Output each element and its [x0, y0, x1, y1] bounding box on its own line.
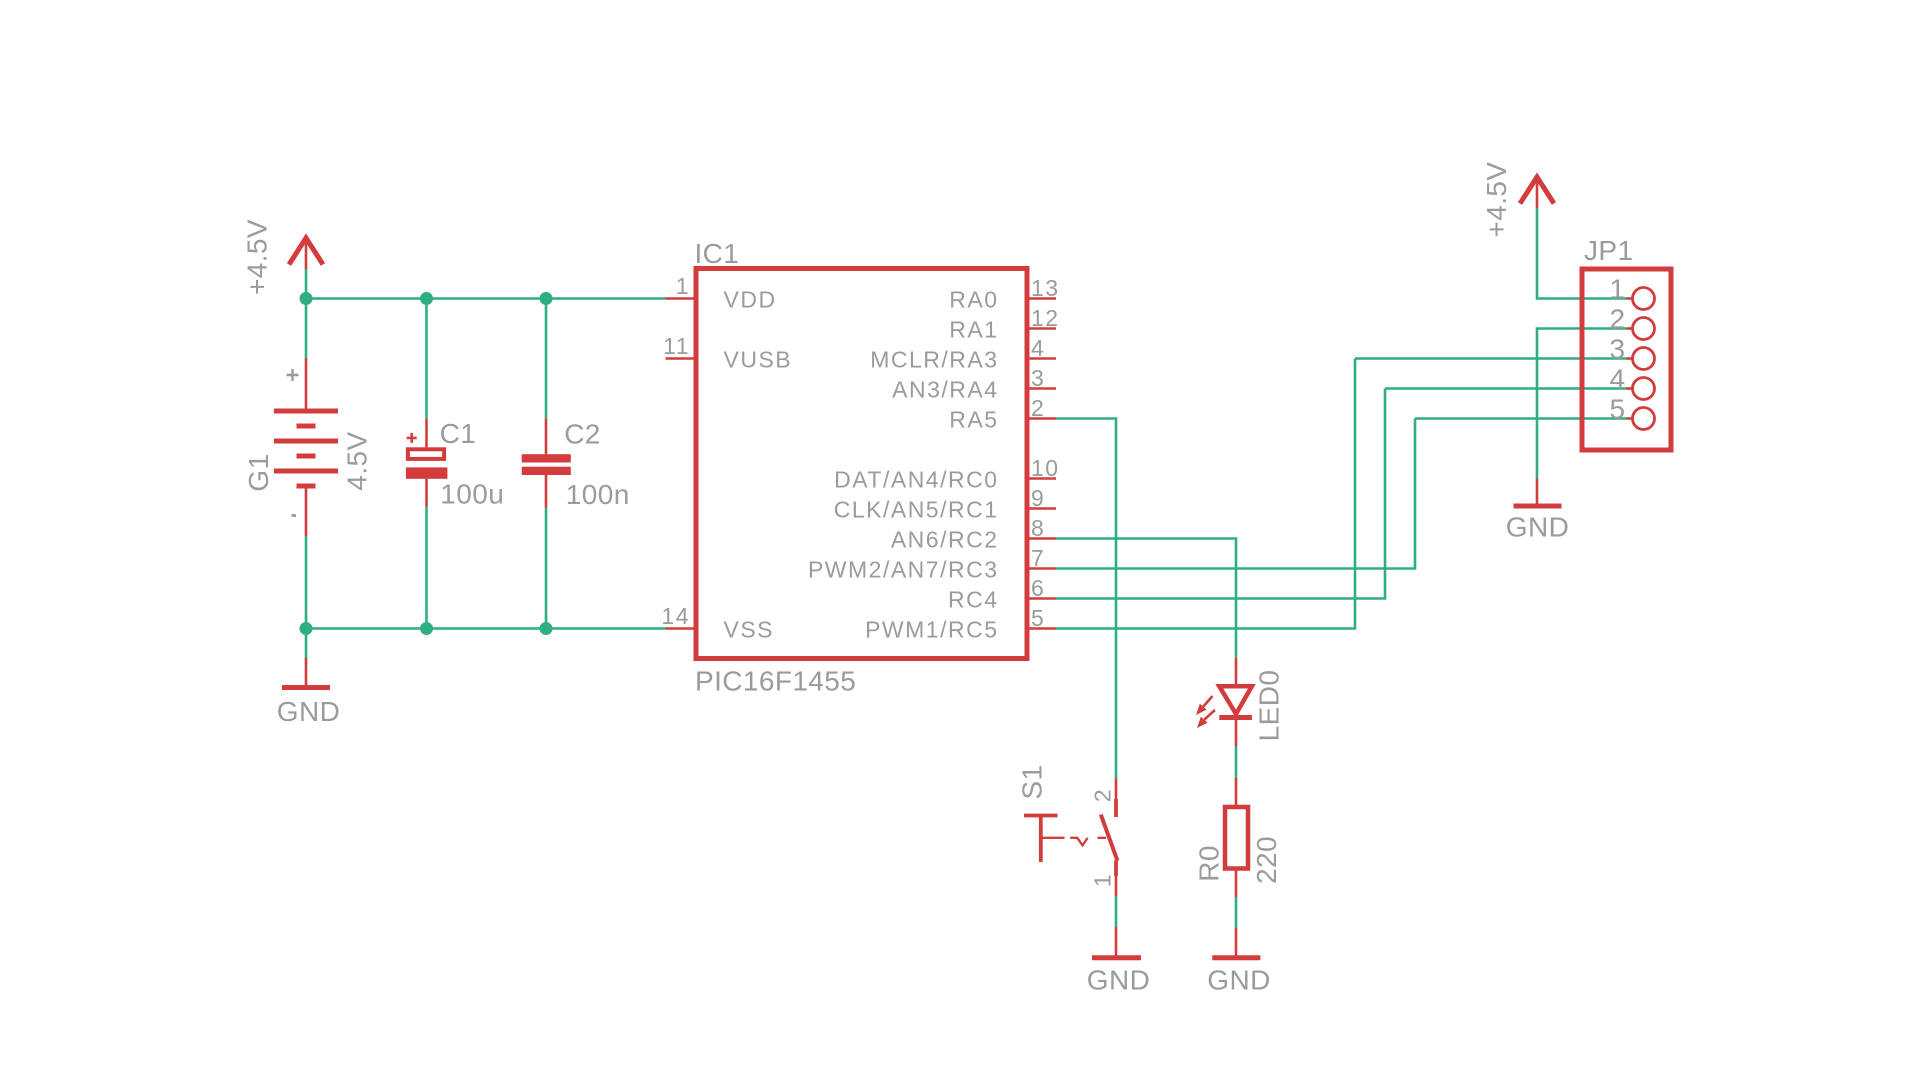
JP1 pin 4 — [1610, 364, 1655, 400]
wire R0 to ground — [1235, 897, 1238, 928]
svg-text:RA1: RA1 — [949, 317, 998, 343]
wire JP1 pin 2 to ground — [1537, 329, 1627, 479]
wire JP1 pin 4 — [1385, 387, 1627, 390]
svg-text:JP1: JP1 — [1584, 235, 1633, 266]
svg-text:1: 1 — [1610, 274, 1626, 305]
connector JP1 box — [1582, 269, 1671, 450]
wire +4.5V to VDD rail — [305, 269, 308, 299]
ground symbol S1 — [1092, 927, 1141, 958]
JP1 pin 3 — [1610, 334, 1655, 370]
junction GND rail / C2 — [540, 622, 553, 635]
svg-text:3: 3 — [1031, 365, 1045, 391]
IC1 pin 7 PWM2/AN7/RC3 — [808, 545, 1056, 583]
wire RA5 to switch S1 — [1056, 419, 1116, 780]
LED LED0 — [1196, 658, 1252, 746]
JP1 pin 5 — [1610, 394, 1655, 430]
svg-text:13: 13 — [1031, 275, 1060, 301]
svg-text:G1: G1 — [243, 453, 274, 491]
capacitor C1 — [406, 419, 448, 507]
wire JP1 pin 5 — [1415, 417, 1627, 420]
junction VDD rail / battery — [300, 292, 313, 305]
svg-text:1: 1 — [1090, 873, 1116, 887]
IC1 pin 11 VUSB — [663, 333, 792, 373]
battery G1 — [274, 358, 338, 536]
svg-text:VSS: VSS — [724, 617, 775, 643]
junction VDD rail / C2 — [540, 292, 553, 305]
ground symbol left — [282, 658, 330, 688]
wire rail to C2 — [545, 299, 548, 419]
IC1 pin 8 AN6/RC2 — [891, 515, 1056, 553]
svg-text:MCLR/RA3: MCLR/RA3 — [870, 347, 998, 373]
svg-text:+4.5V: +4.5V — [1481, 162, 1512, 238]
svg-text:2: 2 — [1090, 788, 1116, 802]
svg-text:5: 5 — [1610, 394, 1626, 425]
svg-text:1: 1 — [676, 273, 690, 299]
switch S1 — [1024, 779, 1118, 896]
svg-text:RC4: RC4 — [948, 587, 999, 613]
wire VDD rail — [306, 297, 666, 300]
svg-text:GND: GND — [1087, 965, 1150, 996]
IC1 pin 14 VSS — [661, 603, 774, 643]
svg-text:12: 12 — [1031, 305, 1060, 331]
svg-text:10: 10 — [1031, 455, 1060, 481]
capacitor C2 — [522, 418, 571, 507]
IC1 pin 2 RA5 — [949, 395, 1056, 433]
svg-text:100n: 100n — [566, 479, 630, 510]
wire S1 to ground — [1115, 896, 1118, 927]
svg-text:11: 11 — [663, 333, 690, 359]
svg-text:PWM2/AN7/RC3: PWM2/AN7/RC3 — [808, 557, 999, 583]
svg-text:4.5V: 4.5V — [342, 431, 373, 490]
ground symbol R0 — [1212, 928, 1260, 958]
wire GND rail — [306, 627, 666, 630]
wire AN6/RC2 to LED0 — [1056, 539, 1236, 658]
svg-text:RA0: RA0 — [949, 287, 998, 313]
svg-text:2: 2 — [1031, 395, 1045, 421]
svg-text:8: 8 — [1031, 515, 1045, 541]
wire rail to ground left — [305, 629, 308, 659]
IC1 pin 9 CLK/AN5/RC1 — [834, 485, 1056, 523]
wire rail to C1 — [425, 299, 428, 419]
svg-text:CLK/AN5/RC1: CLK/AN5/RC1 — [834, 497, 999, 523]
svg-text:+4.5V: +4.5V — [242, 219, 273, 295]
wire LED0 to R0 — [1235, 746, 1238, 778]
svg-text:GND: GND — [1506, 512, 1569, 543]
wire JP1 pin 3 — [1355, 357, 1627, 360]
svg-text:GND: GND — [1207, 965, 1270, 996]
IC1 pin 12 RA1 — [949, 305, 1059, 343]
power symbol +4.5V right — [1520, 177, 1554, 208]
JP1 pin 2 — [1610, 304, 1655, 340]
svg-text:4: 4 — [1031, 335, 1045, 361]
svg-text:IC1: IC1 — [695, 238, 740, 269]
power symbol +4.5V left — [289, 238, 323, 269]
JP1 pin 1 — [1610, 274, 1655, 310]
svg-text:LED0: LED0 — [1253, 670, 1284, 742]
junction VDD rail / C1 — [420, 292, 433, 305]
svg-text:GND: GND — [277, 696, 340, 727]
svg-text:220: 220 — [1251, 836, 1282, 884]
svg-text:RA5: RA5 — [949, 407, 998, 433]
svg-text:AN3/RA4: AN3/RA4 — [892, 377, 998, 403]
svg-text:4: 4 — [1610, 364, 1626, 395]
IC1 pin 10 DAT/AN4/RC0 — [834, 455, 1059, 493]
junction GND rail / battery — [300, 622, 313, 635]
svg-text:S1: S1 — [1017, 764, 1048, 799]
IC1 pin 1 VDD — [666, 273, 777, 313]
resistor R0 — [1225, 778, 1248, 897]
IC1 pin 6 RC4 — [948, 575, 1056, 613]
ground symbol JP1 — [1514, 479, 1562, 507]
wire C1 to GND rail — [425, 507, 428, 629]
wire battery - to GND rail — [305, 536, 308, 629]
svg-text:DAT/AN4/RC0: DAT/AN4/RC0 — [834, 467, 998, 493]
svg-text:2: 2 — [1610, 304, 1626, 335]
junction GND rail / C1 — [420, 622, 433, 635]
svg-text:PWM1/RC5: PWM1/RC5 — [865, 617, 998, 643]
svg-text:VUSB: VUSB — [724, 347, 793, 373]
svg-text:100u: 100u — [440, 479, 504, 510]
svg-text:7: 7 — [1031, 545, 1045, 571]
wire rail to battery + — [305, 299, 308, 359]
IC1 pin 3 AN3/RA4 — [892, 365, 1056, 403]
wire PWM2/AN7/RC3 to JP1 pin 5 riser — [1056, 419, 1415, 569]
svg-text:14: 14 — [661, 603, 690, 629]
IC1 pin 5 PWM1/RC5 — [865, 605, 1056, 643]
wire RC4 to JP1 pin 4 riser — [1056, 389, 1385, 599]
op-amp IC1 box — [696, 269, 1027, 659]
svg-text:6: 6 — [1031, 575, 1045, 601]
svg-text:PIC16F1455: PIC16F1455 — [695, 666, 856, 697]
svg-text:3: 3 — [1610, 334, 1626, 365]
IC1 pin 4 MCLR/RA3 — [870, 335, 1056, 373]
svg-text:R0: R0 — [1193, 845, 1224, 882]
svg-text:C2: C2 — [564, 418, 601, 449]
IC1 pin 13 RA0 — [949, 275, 1059, 313]
wire +4.5V right to JP1 pin 1 — [1537, 208, 1627, 299]
svg-text:9: 9 — [1031, 485, 1045, 511]
svg-text:C1: C1 — [440, 418, 477, 449]
svg-text:AN6/RC2: AN6/RC2 — [891, 527, 999, 553]
svg-text:5: 5 — [1031, 605, 1045, 631]
svg-text:VDD: VDD — [724, 287, 777, 313]
wire PWM1/RC5 to JP1 pin 3 riser — [1056, 359, 1355, 629]
wire C2 to GND rail — [545, 508, 548, 629]
